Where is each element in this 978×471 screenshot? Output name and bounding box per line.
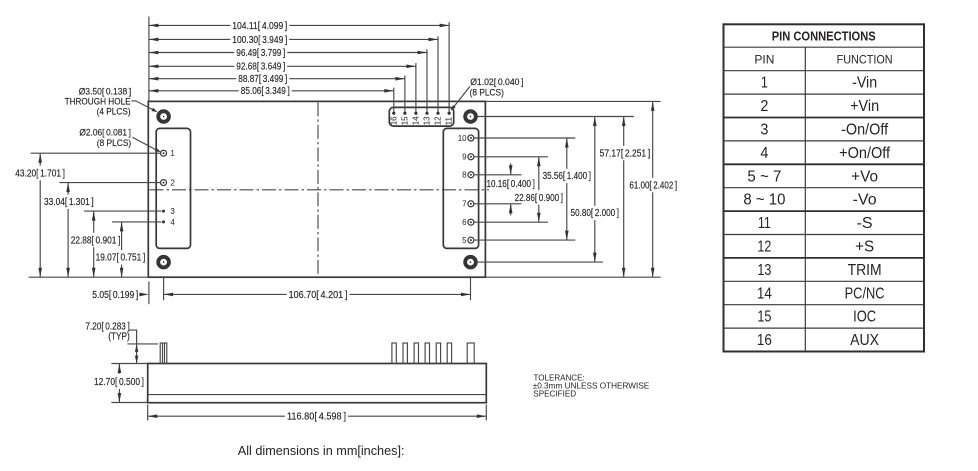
svg-text:4: 4	[760, 145, 768, 162]
svg-text:PIN: PIN	[754, 52, 774, 66]
extension line pin 7 right	[474, 203, 521, 205]
dimension 7.20[0.283] (TYP)	[85, 322, 138, 364]
extension line pin 15 up	[404, 76, 406, 112]
extension line left edge up	[148, 17, 150, 102]
extension line pin 10 right	[474, 137, 575, 139]
svg-text:-Vo: -Vo	[853, 192, 877, 209]
dimension 5.05[0.199]	[92, 290, 149, 301]
vertical centerline	[317, 102, 319, 277]
extension line left hole down	[163, 278, 165, 300]
pin 13 side view	[425, 343, 429, 363]
pin 8	[462, 171, 474, 180]
svg-text:14: 14	[757, 285, 772, 302]
extension line pin 14 up	[415, 63, 417, 112]
svg-text:12.70[ 0.500 ]: 12.70[ 0.500 ]	[94, 377, 144, 388]
pin 5	[462, 236, 474, 245]
svg-text:16: 16	[757, 332, 772, 349]
extension line pin 9 right	[474, 156, 548, 158]
svg-text:8 ~ 10: 8 ~ 10	[743, 192, 785, 209]
svg-text:13: 13	[757, 262, 771, 279]
mounting hole bottom-right	[464, 256, 477, 269]
pin 1	[161, 149, 176, 158]
svg-text:All dimensions in mm[inches]:: All dimensions in mm[inches]:	[238, 443, 405, 458]
label hole dia 1.02	[451, 77, 524, 111]
mounting hole bottom-left	[157, 256, 170, 269]
svg-text:11: 11	[445, 116, 454, 125]
svg-text:22.86[ 0.900 ]: 22.86[ 0.900 ]	[515, 193, 564, 204]
right pin header	[443, 128, 478, 248]
dimension 88.87[3.499]	[149, 74, 405, 85]
extension line body right down	[485, 405, 487, 421]
horizontal centerline	[150, 189, 490, 191]
svg-text:10.16[ 0.400 ]: 10.16[ 0.400 ]	[487, 179, 536, 190]
pin 15 side view	[403, 343, 407, 363]
extension line pin 13 up	[426, 49, 428, 112]
baseplate line	[148, 394, 487, 396]
svg-text:(8 PLCS): (8 PLCS)	[470, 87, 504, 98]
dimension 106.70[4.201]	[164, 290, 471, 301]
extension line bottom hole right	[477, 261, 603, 263]
pin 3	[162, 207, 175, 216]
svg-text:PC/NC: PC/NC	[845, 285, 885, 302]
extension line pin 2 left	[59, 182, 160, 184]
svg-text:57.17[ 2.251 ]: 57.17[ 2.251 ]	[600, 148, 651, 159]
dimension 100.30[3.949]	[149, 35, 438, 46]
table group lines	[724, 118, 925, 258]
extension line bottom edge left	[29, 276, 149, 278]
svg-text:85.06[ 3.349 ]: 85.06[ 3.349 ]	[241, 86, 290, 97]
leader hole dia 2.06	[79, 128, 161, 153]
svg-text:33.04[ 1.301 ]: 33.04[ 1.301 ]	[44, 197, 94, 208]
pin connections table	[724, 24, 925, 351]
dimension 96.49[3.799]	[149, 48, 427, 59]
svg-text:(8 PLCS): (8 PLCS)	[97, 138, 131, 149]
svg-text:43.20[ 1.701 ]: 43.20[ 1.701 ]	[15, 168, 65, 179]
svg-text:15: 15	[757, 309, 771, 326]
pin 15	[401, 112, 410, 126]
pin 10	[458, 134, 474, 143]
svg-text:IOC: IOC	[853, 309, 876, 326]
output pin side view	[467, 343, 474, 363]
dimension 10.16[0.400]	[487, 163, 536, 215]
extension line bottom edge right	[485, 276, 660, 278]
mounting hole top-left	[157, 110, 170, 123]
extension line pin 8 right	[474, 174, 521, 176]
dimension 12.70[0.500]	[94, 364, 144, 403]
svg-text:35.56[ 1.400 ]: 35.56[ 1.400 ]	[543, 171, 592, 182]
notes	[238, 372, 650, 458]
input pin side view	[160, 343, 167, 363]
body side view	[148, 364, 487, 403]
pin 12 side view	[436, 343, 440, 363]
svg-text:22.88[ 0.901 ]: 22.88[ 0.901 ]	[71, 235, 121, 246]
dimension 116.80[4.598]	[148, 412, 487, 423]
dimension 104.11[4.099]	[149, 21, 449, 32]
svg-text:+S: +S	[855, 239, 874, 256]
extension line left edge down	[148, 281, 150, 304]
svg-text:AUX: AUX	[850, 332, 880, 349]
svg-text:3: 3	[760, 122, 768, 139]
svg-text:15: 15	[401, 116, 410, 125]
svg-text:5: 5	[462, 236, 467, 245]
extension line pin 11 up	[448, 22, 450, 112]
svg-text:92.68[ 3.649 ]: 92.68[ 3.649 ]	[236, 62, 285, 73]
svg-text:116.80[ 4.598 ]: 116.80[ 4.598 ]	[287, 412, 346, 423]
extension line pin top	[127, 343, 158, 345]
svg-text:12: 12	[434, 116, 443, 125]
svg-text:12: 12	[757, 239, 771, 256]
svg-text:13: 13	[423, 116, 432, 125]
svg-text:-Vin: -Vin	[852, 75, 877, 92]
left pin header	[156, 128, 190, 248]
dimension 50.80[2.000]	[571, 117, 620, 263]
extension line pin 4 left	[112, 221, 162, 223]
svg-text:3: 3	[170, 207, 175, 216]
svg-text:+Vo: +Vo	[851, 168, 878, 185]
top pin header	[389, 107, 453, 126]
pin 6	[462, 218, 474, 227]
svg-text:(4 PLCS): (4 PLCS)	[97, 106, 131, 117]
svg-text:9: 9	[462, 153, 467, 162]
extension line pin 5 right	[474, 239, 575, 241]
extension line pin 12 up	[437, 36, 439, 112]
dimensions left	[15, 153, 161, 277]
svg-text:104.11[ 4.099 ]: 104.11[ 4.099 ]	[232, 21, 287, 32]
dimension 33.04[1.301]	[44, 183, 94, 278]
svg-text:8: 8	[462, 171, 467, 180]
svg-text:10: 10	[458, 134, 467, 143]
pin 4	[162, 218, 175, 227]
module outline top view	[148, 101, 489, 277]
dimension 43.20[1.701]	[15, 153, 65, 277]
dimension 19.07[0.751]	[96, 222, 146, 277]
svg-text:5 ~ 7: 5 ~ 7	[747, 168, 781, 185]
svg-text:Ø2.06[ 0.081 ]: Ø2.06[ 0.081 ]	[79, 128, 131, 139]
svg-text:16: 16	[389, 116, 398, 125]
svg-text:7: 7	[462, 200, 467, 209]
svg-text:1: 1	[761, 75, 768, 92]
svg-text:FUNCTION: FUNCTION	[837, 52, 893, 66]
extension line pin 3 left	[84, 210, 162, 212]
mounting hole top-right	[464, 110, 477, 123]
svg-text:TRIM: TRIM	[848, 262, 882, 279]
table rows	[743, 75, 890, 349]
svg-text:-S: -S	[857, 215, 873, 232]
extension line pin 6 right	[474, 221, 548, 223]
table row lines	[724, 47, 925, 328]
module body outline	[148, 101, 485, 277]
pin 16	[389, 112, 398, 126]
svg-text:6: 6	[462, 218, 467, 227]
pin 16 side view	[392, 343, 396, 363]
svg-text:-On/Off: -On/Off	[841, 122, 889, 139]
extension line body top left	[111, 363, 147, 365]
pin 2	[161, 179, 176, 188]
svg-text:2: 2	[760, 98, 768, 115]
dimension 57.17[2.251]	[600, 117, 651, 278]
extension line top hole right	[477, 116, 634, 118]
leader hole dia 3.50	[65, 86, 158, 117]
pin 12	[434, 112, 443, 126]
svg-text:+Vin: +Vin	[850, 98, 879, 115]
table frame	[724, 24, 925, 351]
svg-text:SPECIFIED: SPECIFIED	[533, 389, 576, 399]
extension line pin 16 up	[393, 88, 395, 112]
pin 14 side view	[414, 343, 418, 363]
svg-text:19.07[ 0.751 ]: 19.07[ 0.751 ]	[96, 253, 146, 264]
dimensions right	[474, 101, 677, 277]
extension line right hole down	[470, 278, 472, 300]
extension line pin 1 left	[31, 152, 161, 154]
svg-text:(TYP): (TYP)	[108, 331, 130, 342]
dimension 35.56[1.400]	[543, 138, 592, 240]
dimension 22.88[0.901]	[71, 211, 121, 277]
dimension 92.68[3.649]	[149, 62, 416, 73]
svg-text:14: 14	[412, 116, 421, 125]
dimension 61.00[2.402]	[629, 101, 677, 277]
svg-text:50.80[ 2.000 ]: 50.80[ 2.000 ]	[571, 208, 620, 219]
svg-text:1: 1	[170, 149, 175, 158]
svg-text:100.30[ 3.949 ]: 100.30[ 3.949 ]	[232, 35, 287, 46]
dimensions top	[65, 17, 524, 153]
svg-text:96.49[ 3.799 ]: 96.49[ 3.799 ]	[236, 48, 285, 59]
svg-text:+On/Off: +On/Off	[839, 145, 891, 162]
pin 13	[423, 112, 432, 126]
svg-text:61.00[ 2.402 ]: 61.00[ 2.402 ]	[629, 180, 677, 191]
dimensions bottom	[92, 278, 470, 304]
svg-text:PIN CONNECTIONS: PIN CONNECTIONS	[772, 29, 876, 44]
table column divider	[804, 47, 806, 351]
pin 7	[462, 200, 474, 209]
tolerance note	[533, 372, 650, 398]
side view	[85, 322, 486, 423]
pin 14	[412, 112, 421, 126]
svg-text:5.05[ 0.199 ]: 5.05[ 0.199 ]	[92, 290, 138, 301]
svg-text:88.87[ 3.499 ]: 88.87[ 3.499 ]	[238, 74, 287, 85]
svg-text:11: 11	[758, 215, 771, 232]
pin 11 side view	[447, 343, 451, 363]
extension line body bottom left	[111, 402, 147, 404]
dimension 22.86[0.900]	[515, 157, 564, 222]
svg-text:4: 4	[170, 218, 175, 227]
svg-text:2: 2	[170, 179, 175, 188]
extension line body left down	[147, 405, 149, 421]
pin 11	[445, 112, 454, 126]
pin 9	[462, 153, 474, 162]
dimension 85.06[3.349]	[149, 86, 394, 97]
svg-text:106.70[ 4.201 ]: 106.70[ 4.201 ]	[289, 290, 348, 301]
extension line top edge right	[485, 100, 660, 102]
